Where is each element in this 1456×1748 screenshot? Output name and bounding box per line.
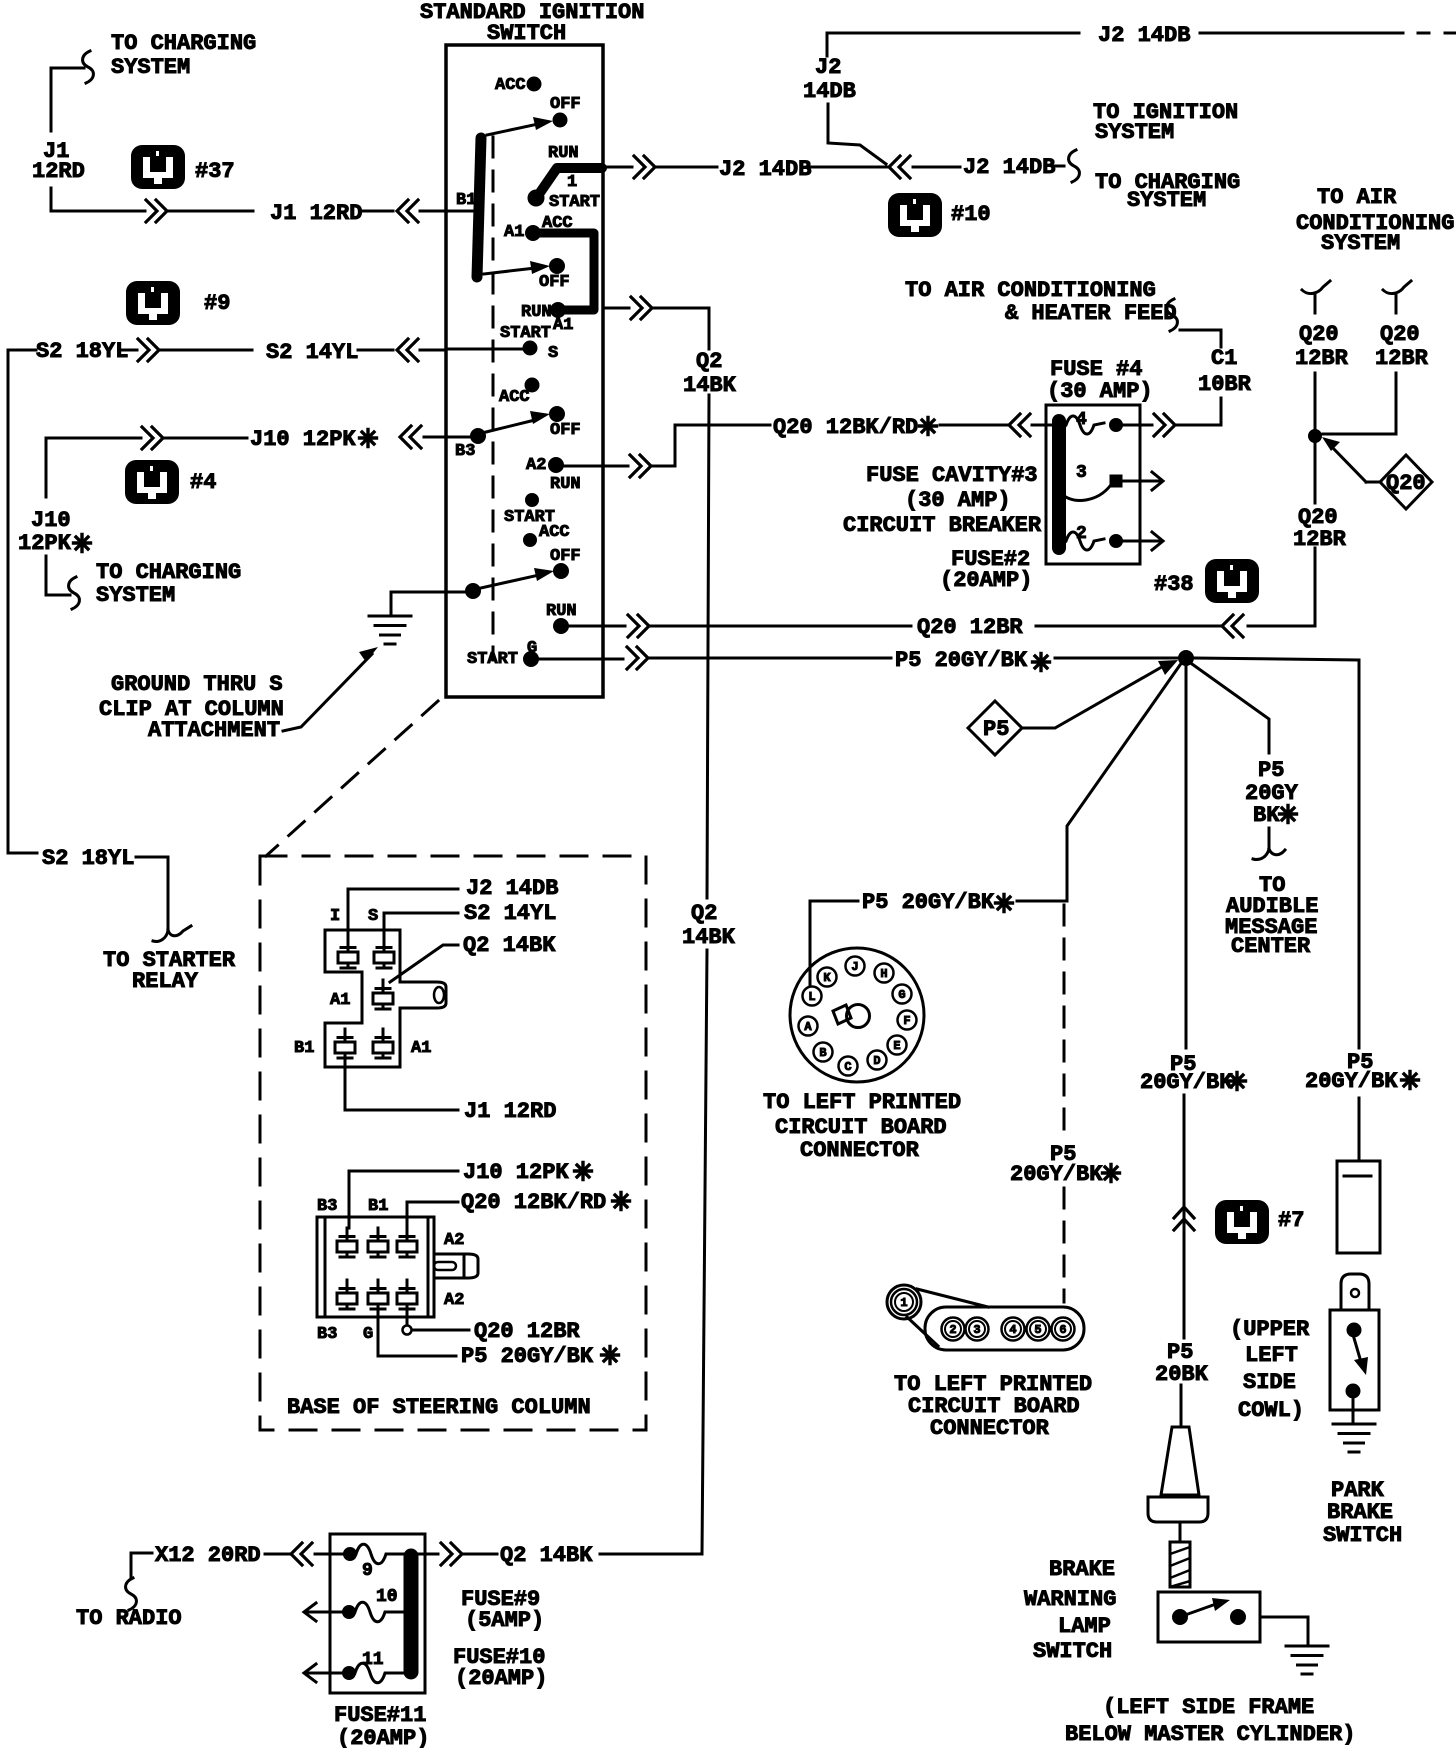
fuse bus bar [1052, 421, 1066, 548]
fuse 11 element [343, 1663, 405, 1683]
squiggle audible [1253, 828, 1285, 860]
svg-text:20GY/BK: 20GY/BK [1140, 1070, 1233, 1095]
svg-text:12BR: 12BR [1295, 346, 1349, 371]
label START S [500, 324, 558, 363]
svg-text:14DB: 14DB [803, 79, 856, 104]
wire to column ground [391, 592, 466, 614]
contact RUN (out Q20) [546, 602, 625, 634]
connector arrow J1 out [146, 200, 167, 222]
wire into fuse block [265, 1553, 289, 1556]
svg-text:Q2 14BK: Q2 14BK [500, 1543, 593, 1568]
svg-text:#9: #9 [204, 291, 230, 316]
arrow to ground symbol [283, 647, 378, 731]
svg-text:& HEATER FEED: & HEATER FEED [1005, 301, 1177, 326]
connector arrow fuse9 out [419, 1543, 497, 1565]
svg-text:(LEFT SIDE FRAME: (LEFT SIDE FRAME [1103, 1695, 1314, 1720]
label Q2 14BK (mid) [682, 901, 736, 950]
pin H (round connector) [875, 964, 894, 983]
svg-text:4: 4 [1076, 410, 1087, 430]
pin row top [337, 1228, 417, 1257]
svg-text:10: 10 [376, 1587, 398, 1607]
wire S2 14YL [160, 349, 393, 352]
wire pin to Q20 12BK/RD label [407, 1202, 458, 1228]
svg-text:J2 14DB: J2 14DB [466, 876, 558, 901]
ground symbol (park brake) [1333, 1424, 1375, 1452]
A1 thick bus [526, 226, 595, 318]
label P5 20GY BK* (audible) [1245, 758, 1299, 828]
pin L (round connector) [803, 987, 822, 1006]
brake warning lamp switch box [1158, 1592, 1260, 1642]
brake switch plunger cone [1148, 1427, 1208, 1522]
svg-text:3: 3 [1076, 463, 1087, 483]
terminal connector (park brake) [1341, 1274, 1369, 1310]
label Q2 14BK (upper) [683, 349, 737, 398]
label J2 14DB (right) [963, 155, 1064, 180]
wire-break squiggle to charging (lower) [69, 577, 80, 609]
svg-text:SWITCH: SWITCH [1033, 1639, 1112, 1664]
wire P5 to junction [1055, 657, 1178, 660]
pin G (round connector) [893, 985, 912, 1004]
svg-text:(20AMP): (20AMP) [940, 568, 1032, 593]
label P5 20GY/BK* (park rail) [1305, 1050, 1419, 1094]
wire junction diagonal to circular connector [1067, 665, 1180, 901]
arrow fuse10 out [304, 1603, 343, 1621]
label J10 12PK* (conn) [463, 1160, 592, 1185]
pin K (round connector) [818, 968, 837, 987]
switch pole B1 bar [477, 138, 481, 277]
lower connector tab [434, 1254, 478, 1278]
wire J2 to connector [810, 166, 887, 169]
lower column connector body [317, 1217, 434, 1317]
wire J10 12PK rail [46, 438, 141, 595]
svg-text:TO RADIO: TO RADIO [76, 1606, 182, 1631]
contact ACC (4th) [524, 523, 570, 547]
svg-text:CIRCUIT BREAKER: CIRCUIT BREAKER [843, 513, 1042, 538]
svg-text:H: H [880, 967, 887, 981]
svg-text:11: 11 [362, 1650, 384, 1670]
contact START (4th) [504, 494, 555, 528]
svg-text:K: K [823, 971, 831, 985]
pin E (round connector) [888, 1036, 907, 1055]
wire junction diagonal to audible [1192, 664, 1269, 753]
pin 2 (flat connector) [942, 1318, 965, 1341]
fuse 3 element (circuit breaker) [1063, 475, 1144, 501]
svg-text:12BR: 12BR [1293, 527, 1347, 552]
svg-text:Q20: Q20 [1299, 322, 1339, 347]
svg-text:B3: B3 [455, 442, 475, 461]
connector arrow J10 out [142, 427, 163, 449]
connector arrow fuse4 out [1154, 414, 1175, 436]
wire Q20 12BR hook [403, 1309, 470, 1335]
svg-text:COWL): COWL) [1238, 1398, 1304, 1423]
svg-text:12BR: 12BR [1375, 346, 1429, 371]
svg-text:F: F [903, 1014, 910, 1028]
svg-text:TO AIR: TO AIR [1317, 185, 1397, 210]
connector arrow Q20 out of switch [628, 615, 649, 637]
svg-text:1: 1 [900, 1296, 907, 1310]
svg-text:1: 1 [567, 173, 577, 192]
wire A2 out [563, 425, 770, 477]
svg-text:SYSTEM: SYSTEM [96, 583, 175, 608]
pin A1 (mid) [330, 980, 393, 1010]
svg-text:SIDE: SIDE [1243, 1370, 1296, 1395]
svg-text:TO AIR CONDITIONING: TO AIR CONDITIONING [905, 278, 1156, 303]
flat PCB connector body [887, 1285, 1084, 1350]
in-line connector (park brake) [1337, 1161, 1380, 1253]
svg-text:Q20 12BR: Q20 12BR [917, 615, 1023, 640]
label P5 20BK [1155, 1340, 1209, 1387]
label J10 12PK* [250, 427, 377, 452]
arrow fuse2 out [1144, 532, 1163, 550]
contact S [446, 341, 537, 355]
svg-text:P5: P5 [983, 717, 1009, 742]
svg-text:3: 3 [973, 1323, 980, 1337]
svg-text:10BR: 10BR [1198, 372, 1252, 397]
book icon #38 [1154, 559, 1259, 603]
wire P5 out of switch [538, 647, 891, 669]
Y terminal right [1383, 281, 1411, 313]
svg-text:#10: #10 [951, 202, 991, 227]
wire J2 out of switch [603, 156, 717, 178]
contact ACC (top) [495, 76, 541, 95]
svg-text:Q2 14BK: Q2 14BK [463, 933, 556, 958]
svg-text:BRAKE: BRAKE [1327, 1500, 1393, 1525]
upper column connector body [325, 930, 446, 1067]
svg-text:ACC: ACC [539, 523, 570, 542]
page connector diamond P5 [968, 701, 1022, 755]
wire into fuse box [1032, 424, 1052, 427]
svg-text:S2 18YL: S2 18YL [36, 339, 128, 364]
svg-text:Q2: Q2 [691, 901, 717, 926]
ground pole dot and arrow [466, 568, 555, 599]
svg-text:L: L [808, 990, 815, 1004]
junction dot Q20 [1309, 430, 1322, 443]
svg-text:G: G [898, 988, 905, 1002]
label RUN A1 out [521, 303, 573, 335]
svg-text:X12 20RD: X12 20RD [155, 1543, 261, 1568]
label P5 20GY/BK* (round conn) [862, 890, 1013, 915]
ground symbol (brake switch) [1286, 1646, 1328, 1674]
label J10 12PK* (rail) [18, 508, 91, 556]
svg-text:SYSTEM: SYSTEM [111, 55, 190, 80]
svg-text:SYSTEM: SYSTEM [1321, 231, 1400, 256]
label P5 20GY/BK* (brake rail) [1140, 1052, 1246, 1095]
svg-text:GROUND THRU S: GROUND THRU S [111, 672, 283, 697]
pin 1 (flat connector) [891, 1289, 917, 1315]
svg-text:A2: A2 [444, 1291, 464, 1310]
svg-text:20GY/BK: 20GY/BK [1305, 1069, 1398, 1094]
pin A1 (low) [373, 1029, 431, 1058]
pin B1 [294, 1029, 355, 1058]
wire S2 18YL left rail [8, 350, 37, 853]
svg-text:SWITCH: SWITCH [487, 21, 566, 46]
pin J (round connector) [846, 957, 865, 976]
svg-text:2: 2 [1076, 524, 1087, 544]
svg-text:12PK: 12PK [18, 531, 72, 556]
wire to fuse4 [940, 424, 1007, 427]
contact OFF (2nd) [539, 259, 570, 293]
ignition switch box [446, 45, 603, 697]
svg-text:Q20 12BR: Q20 12BR [474, 1319, 580, 1344]
svg-text:WARNING: WARNING [1024, 1587, 1116, 1612]
wire J10 inside box [446, 436, 471, 439]
pole arrow to OFF [487, 117, 553, 135]
labels B3 B1 (top) [317, 1197, 388, 1216]
svg-text:J10 12PK: J10 12PK [250, 427, 356, 452]
svg-text:(30 AMP): (30 AMP) [905, 488, 1011, 513]
svg-text:B: B [819, 1046, 826, 1060]
wire J1 12RD to charging system [51, 68, 145, 211]
label ACC A1 [504, 214, 573, 242]
connector tab slot [434, 987, 444, 1003]
pin B (round connector) [814, 1043, 833, 1062]
svg-text:SWITCH: SWITCH [1323, 1523, 1402, 1548]
svg-text:(20AMP): (20AMP) [455, 1666, 547, 1691]
svg-text:12RD: 12RD [32, 159, 85, 184]
round PCB connector body [790, 948, 924, 1082]
svg-text:S: S [548, 344, 558, 363]
connector arrow J2 [889, 156, 910, 178]
svg-text:J2 14DB: J2 14DB [719, 157, 811, 182]
svg-text:J1 12RD: J1 12RD [464, 1099, 556, 1124]
svg-text:B1: B1 [456, 191, 476, 210]
svg-text:P5 20GY/BK: P5 20GY/BK [895, 648, 1028, 673]
svg-text:TO CHARGING: TO CHARGING [111, 31, 256, 56]
connector arrow J1 into switch [397, 200, 446, 222]
svg-text:ACC: ACC [495, 76, 526, 95]
svg-text:J10: J10 [31, 508, 71, 533]
svg-text:RUN: RUN [548, 144, 579, 163]
svg-text:TO LEFT PRINTED: TO LEFT PRINTED [763, 1090, 961, 1115]
svg-text:RELAY: RELAY [132, 969, 199, 994]
svg-text:ACC: ACC [499, 388, 530, 407]
book icon #9 [126, 281, 230, 325]
fuse block box [1046, 405, 1140, 564]
contact A2 RUN [526, 456, 581, 494]
wire J2 overhead right [1200, 32, 1455, 35]
svg-text:A1: A1 [411, 1039, 431, 1058]
svg-text:J: J [851, 960, 858, 974]
pin A (round connector) [799, 1017, 818, 1036]
svg-text:A1: A1 [330, 991, 350, 1010]
squiggle to radio [126, 1578, 137, 1610]
connector arrow J10 into switch [400, 426, 446, 448]
svg-text:B3: B3 [317, 1325, 337, 1344]
switch contacts and lever [1173, 1598, 1246, 1625]
pin 6 (flat connector) [1052, 1318, 1075, 1341]
park brake switch box [1330, 1310, 1379, 1410]
pole arrow to OFF2 [484, 261, 550, 274]
svg-text:(5AMP): (5AMP) [465, 1608, 544, 1633]
label Q20 12BR (rail) [1293, 505, 1347, 552]
svg-text:E: E [893, 1039, 900, 1053]
wire X12 to fuse 9 [315, 1553, 344, 1556]
svg-text:Q20: Q20 [1380, 322, 1420, 347]
label C1 10BR [1198, 346, 1252, 397]
wire junction right branch (park brake) [1194, 658, 1359, 1160]
svg-text:BRAKE: BRAKE [1049, 1557, 1115, 1582]
svg-text:SYSTEM: SYSTEM [1095, 120, 1174, 145]
Y terminal left [1302, 281, 1330, 313]
label 1 START [549, 173, 600, 212]
svg-text:FUSE#11: FUSE#11 [334, 1703, 426, 1728]
park brake switch contacts [1346, 1323, 1368, 1398]
svg-text:CONNECTOR: CONNECTOR [930, 1416, 1050, 1441]
svg-text:BELOW MASTER CYLINDER): BELOW MASTER CYLINDER) [1065, 1722, 1355, 1747]
svg-text:J2 14DB: J2 14DB [963, 155, 1055, 180]
fuse 9 element [344, 1544, 405, 1564]
svg-text:OFF: OFF [550, 95, 581, 114]
wire J2 after arrow [913, 166, 960, 169]
label P5 20GY/BK* (conn) [461, 1344, 619, 1369]
svg-text:Q20 12BK/RD: Q20 12BK/RD [461, 1190, 606, 1215]
contact ACC (3rd) [499, 378, 539, 407]
svg-text:9: 9 [362, 1561, 373, 1581]
svg-text:J1 12RD: J1 12RD [270, 201, 362, 226]
svg-text:B3: B3 [317, 1197, 337, 1216]
wire Q20 left drop [1314, 373, 1317, 429]
wire fuse4 to C1 [1177, 330, 1221, 425]
wire pin A1 to Q2 label [390, 945, 458, 982]
squiggle ignition/charging [1069, 150, 1080, 182]
svg-text:J2 14DB: J2 14DB [1098, 23, 1190, 48]
squiggle heater feed [1167, 299, 1178, 331]
wire RUN A1 out to Q2 rail [603, 297, 709, 349]
arrow fuse11 out [304, 1664, 343, 1682]
fuse 4 element [1066, 416, 1152, 434]
svg-text:#37: #37 [195, 159, 235, 184]
contact OFF (4th) [550, 547, 581, 579]
page connector diamond Q20 [1380, 455, 1432, 509]
label Q20 12BR (right) [1375, 322, 1429, 371]
fuse 2 element [1066, 532, 1144, 550]
svg-text:START: START [549, 193, 600, 212]
svg-text:FUSE CAVITY#3: FUSE CAVITY#3 [866, 463, 1038, 488]
wire-break squiggle charging system [83, 51, 94, 83]
connector arrow S2 into switch [397, 339, 446, 361]
svg-text:LEFT: LEFT [1245, 1343, 1298, 1368]
svg-text:S2 14YL: S2 14YL [266, 340, 358, 365]
pin F (round connector) [898, 1011, 917, 1030]
pin S [368, 907, 394, 968]
wire J1 inside box [446, 210, 474, 213]
wire P5 to round connector [810, 901, 1066, 985]
contact OFF (3rd) [550, 407, 581, 441]
contact G START [467, 639, 539, 669]
pin 4 (flat connector) [1002, 1318, 1025, 1341]
svg-text:LAMP: LAMP [1058, 1614, 1111, 1639]
contact OFF (top) [550, 95, 581, 127]
book icon #37 [131, 145, 235, 189]
dashed box BASE OF STEERING COLUMN [260, 856, 646, 1430]
svg-text:20GY/BK: 20GY/BK [1010, 1162, 1103, 1187]
svg-text:ATTACHMENT: ATTACHMENT [148, 718, 280, 743]
pole B3 dot and arrow [455, 411, 550, 461]
wire junction vertical (brake warning) [1181, 666, 1186, 1427]
svg-text:S2 18YL: S2 18YL [42, 846, 134, 871]
squiggle starter relay [153, 926, 191, 941]
svg-text:14BK: 14BK [682, 925, 736, 950]
svg-text:J2: J2 [815, 55, 841, 80]
pin 5 (flat connector) [1027, 1318, 1050, 1341]
contact RUN thick elbow [528, 144, 602, 206]
book icon #4 [125, 460, 216, 504]
label J2 14DB (rail) [803, 55, 856, 104]
center hub [833, 1005, 870, 1028]
svg-text:S: S [368, 907, 378, 926]
svg-text:CENTER: CENTER [1231, 934, 1311, 959]
svg-text:A1: A1 [504, 223, 524, 242]
label Q20 12BR (left) [1295, 322, 1349, 371]
wire Q2 14BK rail [702, 395, 709, 1554]
svg-text:(20AMP): (20AMP) [337, 1726, 429, 1748]
svg-text:G: G [363, 1325, 373, 1344]
wire pin B1 to J1 label [345, 1058, 458, 1110]
wire Q20 12BR horizontal [651, 625, 1220, 628]
svg-text:S2 14YL: S2 14YL [464, 901, 556, 926]
svg-text:#7: #7 [1278, 1208, 1304, 1233]
label Q20 12BK/RD* (conn) [461, 1190, 630, 1215]
svg-text:4: 4 [1009, 1323, 1016, 1337]
connector arrow into fuse4 [1009, 414, 1030, 436]
wire pin S to S2 label [384, 913, 458, 939]
svg-text:START: START [500, 324, 551, 343]
svg-text:OFF: OFF [539, 273, 570, 292]
svg-text:CONNECTOR: CONNECTOR [800, 1138, 920, 1163]
svg-text:A2: A2 [526, 456, 546, 475]
connector arrow X12 [291, 1543, 312, 1565]
wire J2 overhead rail [827, 33, 1079, 164]
junction node P5 [1179, 651, 1194, 666]
labels A2 A2 [444, 1231, 464, 1310]
fuse block box (9/10/11) [330, 1534, 425, 1693]
wire P5 diamond to junction [1022, 660, 1178, 728]
wire park brake to ground [1352, 1398, 1355, 1421]
svg-text:I: I [330, 907, 340, 926]
svg-text:(UPPER: (UPPER [1230, 1317, 1310, 1342]
svg-text:CIRCUIT BOARD: CIRCUIT BOARD [775, 1115, 947, 1140]
svg-text:Q2: Q2 [696, 349, 722, 374]
svg-text:(30 AMP): (30 AMP) [1047, 379, 1153, 404]
dashed pole divider [492, 137, 495, 660]
svg-text:P5 20GY/BK: P5 20GY/BK [461, 1344, 594, 1369]
svg-text:Q20: Q20 [1386, 471, 1426, 496]
wire X12 20RD [131, 1553, 152, 1578]
svg-text:2: 2 [949, 1323, 956, 1337]
wire Q20 12BR down [1248, 443, 1315, 626]
svg-text:A: A [804, 1020, 812, 1034]
pin 3 (flat connector) [966, 1318, 989, 1341]
dashed wire P5 to PCB connector [1063, 905, 1066, 1302]
svg-text:P5 20GY/BK: P5 20GY/BK [862, 890, 995, 915]
svg-text:START: START [467, 650, 518, 669]
connector arrow S2 out [122, 339, 159, 361]
ground symbol (column) [369, 616, 411, 644]
pin I [330, 907, 358, 968]
label P5 20GY/BK* (dashed) [1010, 1142, 1120, 1187]
wire P5 20GY/BK (conn) [378, 1309, 456, 1356]
svg-text:SYSTEM: SYSTEM [1127, 188, 1206, 213]
svg-text:A2: A2 [444, 1231, 464, 1250]
pin C (round connector) [839, 1057, 858, 1076]
wire J1 12RD horizontal [168, 210, 393, 213]
connector arrow Q20 12BR [1222, 615, 1243, 637]
svg-text:#38: #38 [1154, 572, 1194, 597]
book icon #10 [888, 193, 991, 237]
svg-text:#4: #4 [190, 470, 216, 495]
svg-text:B1: B1 [368, 1197, 388, 1216]
svg-text:J10 12PK: J10 12PK [463, 1160, 569, 1185]
